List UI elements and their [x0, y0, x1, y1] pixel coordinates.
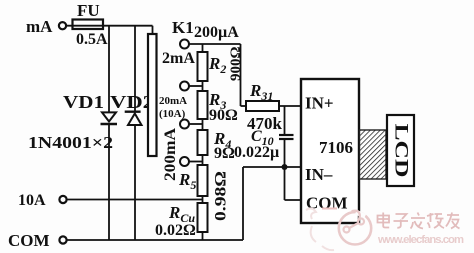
switch contact 1 (200uA) — [180, 40, 189, 49]
watermark text zi (child) — [394, 214, 409, 228]
op-amp/ADC U1 7106 box — [301, 79, 359, 223]
terminal mA circle — [59, 22, 66, 29]
wire COM rail — [67, 239, 244, 241]
resistor R2 — [198, 52, 208, 81]
watermark text you (friend) — [446, 213, 460, 229]
switch contact 3 (20mA) — [180, 120, 189, 129]
svg-text:7106: 7106 — [319, 138, 353, 157]
wire C10 upper branch — [284, 106, 286, 135]
switch contact 4 (200mA) — [180, 157, 189, 166]
switch K1 actuator bar — [148, 34, 157, 156]
capacitor C10 — [279, 135, 294, 139]
wire R31 right lead to IN+ — [279, 105, 301, 107]
svg-text:K1: K1 — [172, 18, 194, 37]
svg-text:200mA: 200mA — [162, 128, 179, 181]
svg-text:COM: COM — [8, 231, 50, 250]
svg-text:0.02Ω: 0.02Ω — [155, 222, 196, 239]
resistor R3 — [198, 91, 208, 119]
wire IN- node horizontal — [243, 166, 301, 168]
terminal COM circle — [59, 236, 66, 243]
wire contact4 tap — [189, 161, 203, 163]
svg-text:IN+: IN+ — [305, 94, 334, 113]
wire COM rail to IN- node — [242, 167, 244, 240]
junction dot IN- node — [282, 164, 288, 170]
wire R31 left lead — [241, 105, 247, 107]
wire contact3 tap — [189, 123, 203, 125]
wire chain segments — [202, 44, 204, 240]
svg-text:20mA: 20mA — [159, 95, 187, 107]
watermark text fa (emit) — [411, 213, 426, 229]
wire VD1 branch upper — [108, 26, 110, 113]
wire contact1 tap — [189, 43, 241, 45]
svg-text:mA: mA — [26, 17, 53, 36]
LCD box — [387, 115, 414, 186]
svg-text:200µA: 200µA — [194, 24, 239, 41]
connector hatched block — [360, 130, 387, 179]
resistor R31 — [246, 101, 279, 111]
watermark smudge near COM — [306, 208, 337, 250]
watermark text shao (burn) — [427, 213, 444, 228]
wire COM pin horizontal — [285, 199, 302, 201]
svg-text:0.5A: 0.5A — [76, 31, 108, 48]
diode VD1 — [101, 112, 118, 124]
terminal 10A circle — [59, 196, 66, 203]
svg-text:900Ω: 900Ω — [228, 46, 244, 81]
resistor RCu — [198, 203, 208, 232]
svg-text:9Ω: 9Ω — [214, 145, 235, 162]
svg-text:10A: 10A — [18, 192, 46, 209]
svg-text:FU: FU — [77, 1, 100, 20]
wire contact2 tap — [189, 85, 203, 87]
wire 200uA tap down to R31 — [240, 44, 242, 106]
wire IN- node to COM pin — [284, 167, 286, 200]
wire mA to switch bar — [67, 25, 153, 27]
fuse FU — [73, 20, 104, 30]
wire VD2 branch upper — [134, 26, 136, 112]
resistor R5 — [198, 165, 208, 196]
svg-text:(10A): (10A) — [159, 108, 186, 120]
watermark text dian (electric) — [378, 213, 390, 228]
svg-text:1N4001×2: 1N4001×2 — [28, 133, 113, 152]
wire VD2 lower — [134, 125, 136, 240]
resistor R4 — [198, 130, 208, 155]
wire C10 lower branch — [284, 139, 286, 167]
watermark logo circle — [339, 211, 371, 245]
svg-text:www.elecfans.com: www.elecfans.com — [377, 234, 464, 246]
wire VD1 lower — [108, 124, 110, 240]
switch contact 2 (2mA) — [180, 82, 189, 91]
svg-text:LCD: LCD — [391, 124, 412, 178]
svg-text:0.022µ: 0.022µ — [234, 144, 279, 161]
svg-text:90Ω: 90Ω — [209, 107, 238, 124]
svg-text:2mA: 2mA — [162, 50, 195, 67]
svg-text:IN–: IN– — [305, 165, 333, 184]
wire 10A to chain — [67, 199, 203, 201]
svg-text:VD1: VD1 — [63, 92, 104, 112]
svg-text:0.98Ω: 0.98Ω — [213, 171, 230, 221]
diode VD2 — [125, 112, 142, 125]
